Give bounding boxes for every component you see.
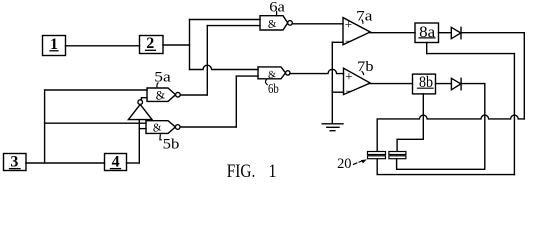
svg-text:FIG.: FIG. [227, 161, 256, 182]
svg-text:5b: 5b [163, 136, 180, 152]
wire to gate 6b upper input with hop over x=207.3 [190, 65, 259, 69]
wire block 8b to diode D2 [436, 83, 452, 85]
gate 5b output bubble [175, 125, 180, 130]
inverter U1 output bubble [138, 100, 143, 105]
wire gate 6b output to op-amp 7b + input with hop over ground riser [290, 69, 344, 73]
wire capacitor C2 bottom to rail x=484.8 [397, 159, 485, 169]
svg-text:&: & [266, 18, 278, 32]
svg-text:7b: 7b [357, 59, 373, 75]
block 3 [4, 154, 27, 171]
wire block1 to block2 [66, 45, 140, 47]
wire diode D1 to right rail x=524.3 [461, 32, 524, 34]
wire ground riser x=332.3 [331, 42, 333, 123]
wire gate 6a output to op-amp 7a + input [292, 23, 343, 25]
wire op-amp 7a inverting input [332, 41, 343, 43]
svg-text:6a: 6a [269, 0, 285, 15]
wire op-amp 7b inverting input [332, 91, 343, 93]
wire op-amp 7a output to block 8a [370, 32, 415, 34]
label 5b [160, 135, 179, 153]
wire inverter bubble hook to gate 5a lower input [141, 98, 147, 100]
wire block4 output to riser x=139.3 [127, 162, 140, 164]
svg-text:1: 1 [269, 161, 277, 182]
label 5a [154, 70, 171, 88]
gate 5a (NAND) body [147, 87, 176, 103]
wire block 8a to diode D1 [439, 32, 452, 34]
wire stub under block 8a [426, 43, 428, 54]
wire diode D2 to rail x=484.8 [461, 83, 485, 85]
block 2 [140, 35, 164, 54]
svg-text:&: & [267, 69, 278, 82]
wire to gate 5a upper input [45, 89, 147, 91]
wire block2 to node [163, 44, 190, 46]
label 6b [265, 79, 279, 96]
gate 5a output bubble [176, 92, 181, 97]
gate 6a output bubble [288, 21, 293, 26]
wire vertical riser x=189.5 [189, 20, 191, 70]
gate 6b (NAND) body [258, 67, 286, 82]
wire gate 5a output riser x=207.3 [206, 26, 208, 95]
capacitor C1 [368, 152, 386, 159]
gate 6a (NAND) body [260, 16, 288, 32]
wire stub under block 8b down to capacitor C2 [397, 94, 423, 151]
label 7b [357, 59, 373, 75]
op-amp 7a [343, 17, 370, 49]
wire gate 5b output riser x=236.3 to gate 6b lower input [235, 76, 237, 127]
inverter U1 triangle [128, 104, 152, 119]
wire to gate 6a upper input [190, 19, 261, 21]
label 7a [356, 8, 373, 24]
wire op-amp 7b output to block 8b [370, 83, 412, 85]
wire feedback line y=53.6 [427, 53, 515, 55]
svg-text:20: 20 [337, 156, 351, 172]
svg-text:&: & [154, 87, 167, 103]
wire block3 to block4 [26, 162, 105, 164]
svg-text:+: + [345, 17, 353, 32]
svg-text:−: − [346, 83, 353, 98]
wire riser x=44.6 from block3 line [44, 90, 46, 163]
svg-text:6b: 6b [268, 81, 279, 96]
gate 6b output bubble [286, 71, 290, 75]
wire capacitor C1 top riser and line y=118.9 with hops [377, 115, 524, 151]
wire riser x=139.3 inverter input [138, 120, 140, 163]
diode D2 [451, 78, 461, 90]
block 8b [413, 74, 436, 94]
wire to gate 5b upper input [45, 122, 146, 124]
wire right rail x=524.3 down to capacitor line [523, 33, 525, 119]
block 4 [105, 154, 127, 171]
label 20 with arrow to capacitors [337, 156, 367, 172]
svg-text:7a: 7a [356, 8, 373, 24]
op-amp 7b [344, 68, 371, 98]
diode D1 [451, 27, 461, 38]
ground [322, 124, 343, 131]
gate 5b (NAND) body [146, 121, 175, 135]
svg-text:−: − [345, 34, 352, 49]
svg-text:2: 2 [146, 35, 154, 52]
wire rail x=484.8 down [484, 84, 486, 170]
block 1 [43, 36, 66, 56]
capacitor C2 [389, 152, 406, 159]
wire capacitor C1 bottom to rail x=514.4 [377, 159, 514, 175]
block 8a [415, 23, 439, 43]
caption FIG. 1 [227, 161, 277, 182]
wire gate 5b output [180, 126, 236, 128]
wire to gate 6a lower input [207, 25, 260, 27]
wire stub to gate 5b lower input [139, 128, 146, 130]
svg-text:+: + [345, 69, 353, 84]
wire rail x=514.4 down to bottom line [513, 54, 515, 175]
label 6a [269, 0, 285, 16]
svg-text:&: & [151, 121, 163, 135]
svg-text:5a: 5a [154, 70, 171, 86]
wire gate 5a output [180, 94, 207, 96]
